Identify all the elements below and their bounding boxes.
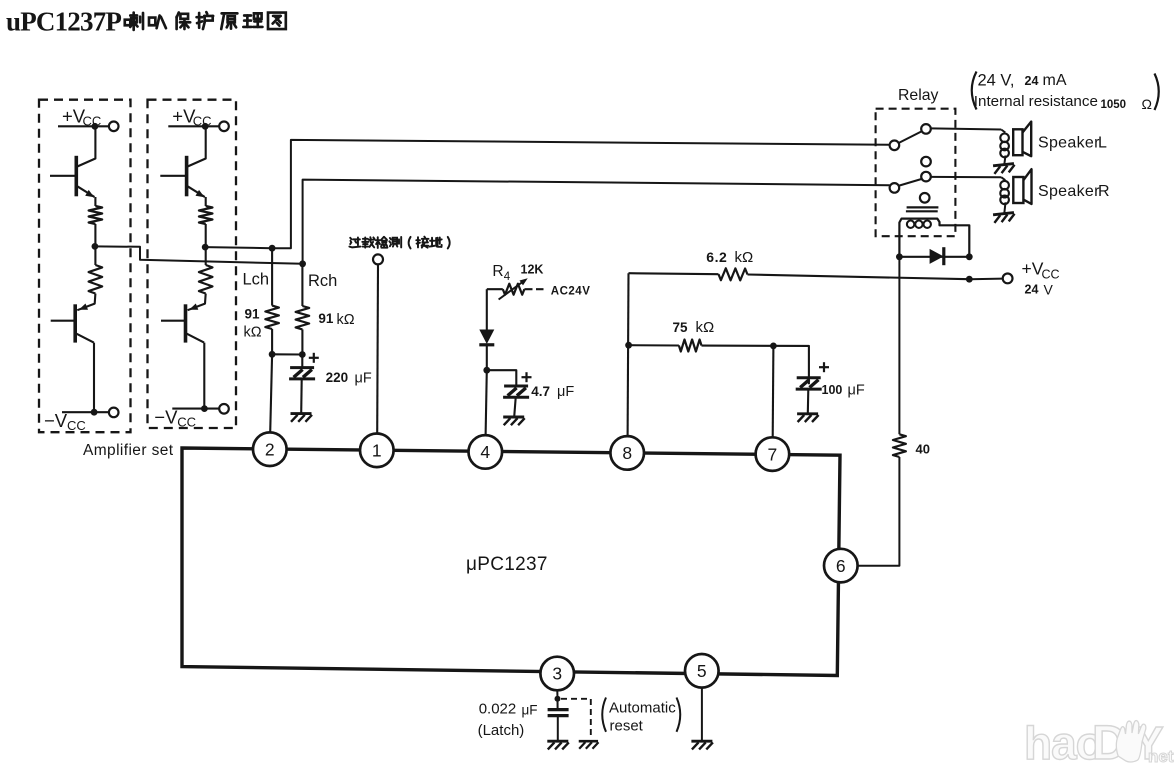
- svg-text:91: 91: [318, 311, 334, 326]
- speaker R coil: [1001, 177, 1005, 180]
- wire -Vcc rail amp1: [62, 411, 109, 413]
- wire -Vcc rail amp2: [172, 408, 219, 410]
- capacitor 0.022uF: [548, 708, 569, 711]
- svg-text:2: 2: [265, 439, 275, 459]
- wire 75k to 100uF corner: [702, 346, 809, 385]
- arrow R4 wiper: [499, 281, 525, 300]
- node -Vcc amp2: [201, 405, 208, 412]
- spec note parentheses: [972, 72, 977, 110]
- label overload detect (CJK): [349, 237, 360, 247]
- svg-text:6: 6: [836, 556, 846, 576]
- relay switch L lever: [899, 131, 923, 143]
- svg-text:kΩ: kΩ: [735, 249, 754, 266]
- svg-text:CC: CC: [83, 114, 102, 129]
- svg-text:0.022: 0.022: [479, 700, 517, 717]
- resistor 6.2k: [719, 268, 748, 280]
- svg-text:CC: CC: [177, 415, 196, 430]
- resistor 40: [893, 434, 906, 457]
- node Rch tap: [299, 260, 306, 267]
- svg-text:24: 24: [1025, 74, 1039, 88]
- svg-text:75: 75: [673, 320, 689, 335]
- svg-text:Amplifier set: Amplifier set: [83, 442, 174, 459]
- resistor 91k Rch: [296, 306, 310, 329]
- speaker L coil: [1001, 130, 1005, 133]
- svg-text:−V: −V: [44, 410, 68, 431]
- wire pin 5 to ground: [701, 688, 703, 741]
- capacitor 100uF: [796, 378, 822, 389]
- node Lch tap: [269, 245, 276, 252]
- svg-text:kΩ: kΩ: [244, 325, 262, 341]
- wire +Vcc row to terminal: [969, 278, 1002, 281]
- wire amp2 output to relay L: [206, 140, 890, 248]
- node diode / 4.7uF: [483, 367, 490, 374]
- svg-text:hao: hao: [1024, 717, 1103, 769]
- plus 100uF: [819, 362, 829, 372]
- svg-text:100: 100: [822, 383, 843, 397]
- node 91k Lch bottom: [269, 351, 276, 358]
- wire amp1 output to relay R: [95, 180, 890, 264]
- relay switch L input terminal: [890, 141, 900, 151]
- wire speaker L to ground: [1004, 156, 1005, 165]
- plus 4.7uF: [522, 372, 532, 382]
- wire node to cap: [557, 699, 559, 708]
- svg-text:Automatic: Automatic: [609, 700, 676, 717]
- node diode right: [966, 253, 973, 260]
- wire 91k Rch to node: [301, 329, 303, 354]
- relay switch R input terminal: [890, 183, 900, 193]
- wire terminal to pin 1: [376, 264, 379, 433]
- svg-text:6.2: 6.2: [706, 249, 727, 265]
- svg-text:1050: 1050: [1101, 99, 1127, 111]
- wire +Vcc rail amp1: [58, 125, 109, 127]
- svg-text:40: 40: [916, 442, 930, 457]
- svg-text:7: 7: [768, 444, 778, 464]
- terminal -Vcc amp1: [109, 408, 119, 418]
- wire 6.2k to +Vcc node: [748, 275, 970, 280]
- capacitor 4.7uF: [503, 386, 529, 397]
- svg-text:kΩ: kΩ: [337, 312, 355, 328]
- wire pin 3 down: [556, 690, 558, 699]
- wire node to pin 4: [486, 370, 487, 435]
- dashed automatic-reset link: [561, 699, 591, 739]
- relay box (dashed): [876, 109, 956, 237]
- relay switch L throw contact: [921, 124, 931, 134]
- svg-text:Lch: Lch: [243, 271, 270, 289]
- svg-text:(Latch): (Latch): [478, 722, 525, 739]
- wire +Vcc rail amp2: [168, 125, 219, 127]
- svg-text:91: 91: [245, 306, 261, 321]
- plus 220uF: [309, 353, 319, 363]
- transistor Q1 amp1: [75, 156, 79, 197]
- pin 3: [540, 657, 574, 691]
- node 75k / pin 7: [770, 343, 777, 350]
- svg-text:CC: CC: [193, 114, 212, 129]
- svg-text:8: 8: [622, 443, 632, 463]
- terminal +Vcc amp2: [219, 122, 229, 132]
- speaker R symbol: [1013, 177, 1023, 203]
- resistor 91k Lch: [265, 306, 279, 329]
- wire relay R to speaker R: [931, 176, 1001, 178]
- wire 4.7uF to ground: [514, 398, 516, 417]
- ground 220uF: [291, 414, 313, 422]
- wire coil to 40 ohm: [898, 257, 900, 435]
- pin 6: [824, 549, 858, 583]
- wire collector amp1 Q1: [77, 126, 95, 166]
- ground pin 5: [691, 741, 713, 749]
- svg-text:Speaker: Speaker: [1038, 183, 1100, 200]
- svg-text:+V: +V: [1022, 259, 1044, 279]
- wire collector amp2 Q2: [203, 343, 205, 409]
- svg-text:reset: reset: [610, 718, 644, 735]
- svg-text:μF: μF: [355, 371, 372, 387]
- wire 100uF to ground: [807, 389, 810, 413]
- relay core bars: [907, 206, 939, 208]
- speaker L symbol: [1013, 129, 1022, 155]
- ground speaker L: [993, 164, 1015, 174]
- svg-text:−V: −V: [154, 407, 178, 428]
- svg-text:net: net: [1148, 747, 1174, 766]
- terminal +Vcc amp1: [109, 122, 119, 132]
- wire diode row: [899, 256, 969, 258]
- node mid amp1: [92, 243, 99, 250]
- wire R4 to diode: [486, 289, 488, 330]
- wire speaker R to ground: [1004, 202, 1005, 213]
- node 91k Rch bottom: [299, 351, 306, 358]
- relay coil: [899, 219, 969, 257]
- svg-text:μF: μF: [557, 384, 574, 400]
- relay switch R NC contact: [920, 193, 930, 203]
- svg-text:5: 5: [697, 661, 707, 681]
- transistor Q2 amp2: [184, 304, 188, 342]
- svg-text:1: 1: [372, 441, 382, 461]
- terminal overload detect: [373, 254, 383, 264]
- wire emitter amp1 Q1: [94, 197, 96, 206]
- svg-text:Rch: Rch: [308, 272, 337, 290]
- svg-text:220: 220: [326, 370, 349, 385]
- title CJK 喇叭保护原理图: [125, 13, 143, 30]
- relay switch L NC contact: [921, 157, 931, 167]
- svg-text:24 V,: 24 V,: [978, 72, 1015, 90]
- pin 7: [756, 437, 790, 471]
- wire 220uF top: [301, 355, 303, 368]
- terminal -Vcc amp2: [219, 404, 229, 414]
- svg-text:V: V: [1044, 281, 1054, 297]
- wire to 75k: [629, 344, 679, 346]
- node -Vcc amp1: [91, 409, 98, 416]
- wire pin 8 rail up: [627, 273, 630, 436]
- wire collector amp1 Q2: [93, 343, 95, 413]
- wire pin 7 rail: [772, 346, 775, 438]
- wire 220uF to ground: [300, 379, 303, 413]
- wire 91k Lch to node: [271, 329, 273, 354]
- wire node to pin 2: [270, 354, 272, 432]
- IC uPC1237 outline: [182, 448, 840, 676]
- node +Vcc / coil: [966, 276, 973, 283]
- svg-text:4: 4: [480, 442, 490, 462]
- capacitor 220uF: [289, 368, 315, 379]
- svg-text:μF: μF: [522, 703, 538, 718]
- svg-text:L: L: [1098, 134, 1107, 151]
- ground 4.7uF: [503, 417, 525, 425]
- resistor 75k: [679, 340, 702, 352]
- relay switch R lever: [899, 179, 923, 186]
- resistor lower amp1: [89, 265, 103, 294]
- node +Vcc amp2: [202, 123, 209, 130]
- transistor Q2 amp1: [73, 304, 77, 342]
- node mid amp2: [202, 244, 209, 251]
- svg-text:4.7: 4.7: [531, 384, 550, 399]
- diode D2 (flyback): [930, 249, 944, 264]
- svg-text:uPC1237P: uPC1237P: [6, 7, 121, 37]
- ground automatic reset: [579, 741, 599, 749]
- pin 5: [685, 654, 719, 688]
- svg-text:Relay: Relay: [898, 87, 938, 104]
- pin 2: [253, 432, 287, 466]
- watermark haoDIY.net: [1024, 717, 1174, 770]
- resistor upper amp1: [89, 206, 103, 224]
- diode D1: [479, 330, 494, 345]
- svg-text:μPC1237: μPC1237: [466, 554, 548, 575]
- relay switch R throw contact: [921, 172, 931, 182]
- wire emitter amp1 Q2: [77, 294, 95, 311]
- wire diode to node: [486, 345, 488, 370]
- amplifier box 1 (dashed): [39, 100, 131, 433]
- resistor upper amp2: [199, 206, 213, 224]
- svg-text:mA: mA: [1043, 72, 1067, 89]
- wire node to 4.7uF: [487, 370, 517, 386]
- ground speaker R: [993, 213, 1015, 223]
- wire cap to ground: [557, 716, 559, 741]
- svg-text:μF: μF: [848, 382, 865, 398]
- terminal +Vcc 24V: [1003, 274, 1013, 284]
- svg-text:R: R: [492, 263, 503, 280]
- pin 1: [360, 434, 394, 468]
- svg-text:CC: CC: [67, 418, 86, 433]
- amplifier box 2 (dashed): [148, 100, 237, 428]
- node pin8/75k: [625, 342, 632, 349]
- pin 8: [610, 436, 644, 470]
- wire 40 ohm to pin 6: [857, 457, 899, 566]
- svg-text:Internal resistance: Internal resistance: [974, 93, 1098, 110]
- wire emitter amp2 Q1: [205, 197, 207, 206]
- svg-text:R: R: [1098, 183, 1110, 200]
- svg-text:Ω: Ω: [1142, 96, 1152, 112]
- resistor 6.2k row wire: [629, 273, 719, 274]
- svg-text:kΩ: kΩ: [696, 319, 715, 336]
- svg-text:Speaker: Speaker: [1038, 134, 1100, 151]
- wire mid rail amp1: [94, 224, 96, 265]
- svg-text:CC: CC: [1042, 267, 1060, 281]
- svg-text:12K: 12K: [521, 263, 544, 277]
- ground 100uF: [797, 414, 819, 422]
- node diode left: [896, 253, 903, 260]
- node +Vcc amp1: [92, 123, 99, 130]
- wire Rch down: [301, 264, 303, 306]
- wire relay L to speaker L: [931, 128, 1001, 129]
- transistor Q1 amp2: [185, 156, 189, 197]
- svg-text:AC24V: AC24V: [551, 286, 591, 298]
- node pin 3: [555, 696, 561, 702]
- svg-text:3: 3: [552, 664, 562, 684]
- resistor R4 (variable): [487, 288, 503, 290]
- wire collector amp2 Q1: [188, 126, 206, 166]
- pin 4: [469, 435, 503, 469]
- ground latch cap: [547, 741, 569, 749]
- automatic reset parentheses: [602, 698, 606, 732]
- wire emitter amp2 Q2: [188, 294, 206, 311]
- svg-text:24: 24: [1025, 283, 1039, 297]
- wire joining 91k bottoms: [272, 353, 302, 355]
- wire mid rail amp2: [205, 224, 207, 265]
- svg-text:4: 4: [504, 271, 511, 283]
- wire Lch down: [271, 248, 273, 305]
- resistor lower amp2: [199, 265, 213, 294]
